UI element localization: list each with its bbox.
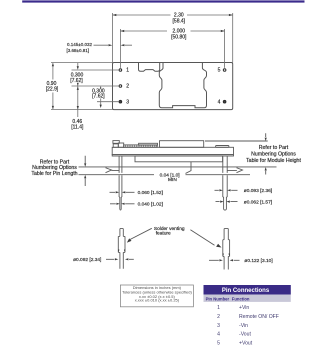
svg-text:[58.4]: [58.4]	[173, 19, 186, 25]
svg-text:ø0.062 [1.57]: ø0.062 [1.57]	[244, 199, 272, 205]
svg-text:2: 2	[126, 84, 129, 90]
svg-text:[50.80]: [50.80]	[171, 34, 187, 40]
svg-text:[22.9]: [22.9]	[46, 87, 59, 93]
svg-text:Table for Pin Length: Table for Pin Length	[31, 171, 77, 177]
svg-text:[7.62]: [7.62]	[92, 94, 105, 100]
svg-text:Function: Function	[232, 297, 250, 302]
svg-text:-Vin: -Vin	[239, 323, 248, 329]
svg-text:+Vout: +Vout	[239, 340, 253, 346]
svg-text:[7.62]: [7.62]	[70, 78, 83, 84]
svg-text:1: 1	[217, 305, 220, 311]
svg-text:Pin Number: Pin Number	[206, 297, 230, 302]
svg-text:feature: feature	[156, 230, 171, 236]
svg-text:+Vin: +Vin	[239, 305, 249, 311]
svg-text:MIN: MIN	[168, 177, 177, 183]
svg-text:3: 3	[217, 323, 220, 329]
svg-text:Numbering Options: Numbering Options	[251, 151, 296, 157]
svg-text:4: 4	[218, 99, 221, 105]
svg-text:0.145±0.032: 0.145±0.032	[67, 42, 92, 47]
svg-text:5: 5	[217, 340, 220, 346]
svg-text:2.30: 2.30	[174, 12, 184, 18]
svg-text:x.xxx ±0.010 (x.xx ±0.25): x.xxx ±0.010 (x.xx ±0.25)	[135, 298, 180, 303]
svg-text:4: 4	[217, 332, 220, 338]
svg-text:[3.68±0.81]: [3.68±0.81]	[67, 48, 90, 53]
svg-text:5: 5	[218, 68, 221, 74]
svg-text:Remote ON/ OFF: Remote ON/ OFF	[239, 314, 279, 320]
svg-text:[11.4]: [11.4]	[71, 125, 84, 131]
svg-text:ø0.093 [2.36]: ø0.093 [2.36]	[244, 188, 272, 194]
svg-text:3: 3	[126, 99, 129, 105]
svg-text:0.040 [1.02]: 0.040 [1.02]	[138, 202, 163, 208]
svg-text:0.060 [1.52]: 0.060 [1.52]	[138, 190, 163, 196]
svg-text:1: 1	[126, 68, 129, 74]
svg-text:ø0.092 [2.34]: ø0.092 [2.34]	[73, 257, 101, 263]
svg-text:ø0.122 [3.10]: ø0.122 [3.10]	[244, 258, 272, 264]
svg-text:Table for Module Height: Table for Module Height	[246, 158, 301, 164]
svg-text:Refer to Part: Refer to Part	[259, 145, 289, 151]
svg-text:-Vout: -Vout	[239, 332, 251, 338]
svg-text:2: 2	[217, 314, 220, 320]
svg-text:Pin Connections: Pin Connections	[222, 288, 270, 294]
